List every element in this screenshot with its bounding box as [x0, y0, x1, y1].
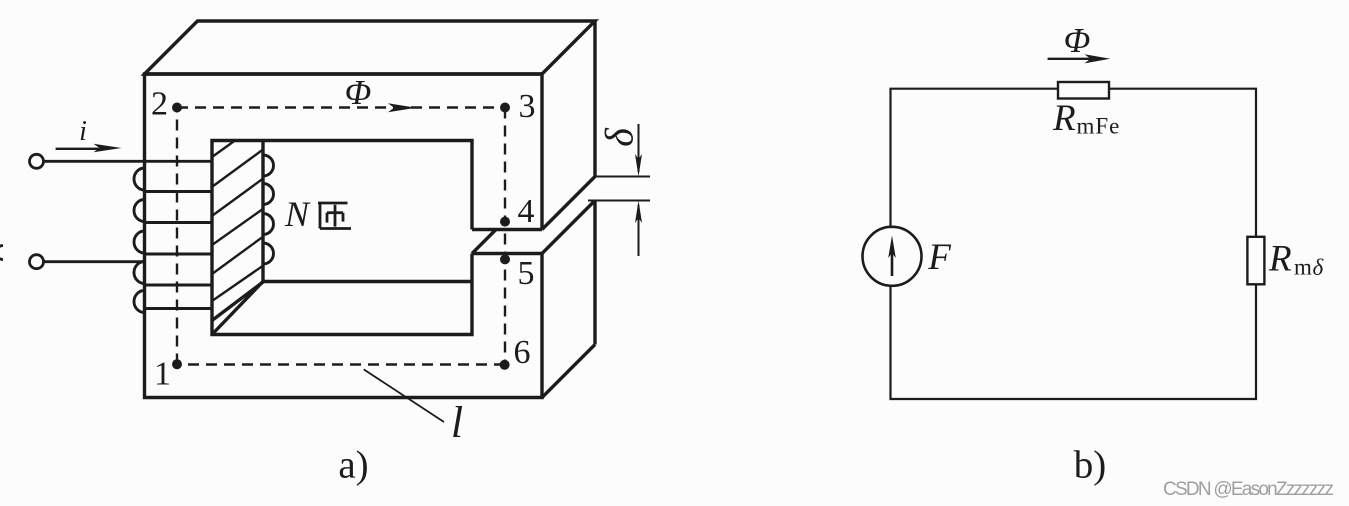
- resistor Rmdelta: [1247, 237, 1264, 284]
- terminal top: [30, 154, 44, 168]
- air-gap front edges: [472, 230, 542, 254]
- svg-text:3: 3: [519, 88, 536, 125]
- wire bottom terminal: [44, 260, 147, 263]
- svg-text:N: N: [284, 194, 311, 234]
- core bottom-right oblique: [542, 345, 595, 398]
- flux arrow b: [1048, 58, 1095, 60]
- node 2 dot: [172, 103, 182, 113]
- mean length leader line: [364, 369, 444, 422]
- core back right edge: [593, 21, 596, 345]
- flux arrowhead top: [388, 103, 416, 112]
- node 4 dot: [500, 217, 510, 227]
- circuit b loop wires: [891, 89, 1257, 399]
- core window opening: [212, 141, 472, 335]
- svg-text:Φ: Φ: [1064, 21, 1091, 60]
- svg-text:mFe: mFe: [1077, 114, 1121, 139]
- svg-text:R: R: [1268, 239, 1292, 280]
- core right face obliques at gap: [542, 177, 595, 254]
- coil front wire turns: [44, 161, 213, 308]
- svg-text:1: 1: [154, 356, 171, 393]
- resistor RmFe: [1058, 82, 1109, 99]
- terminal bottom: [30, 255, 44, 269]
- svg-text:6: 6: [514, 334, 531, 371]
- svg-text:i: i: [79, 116, 87, 147]
- svg-text:δ: δ: [1313, 255, 1324, 280]
- coil right arcs: [263, 155, 274, 264]
- coil hatch lines: [212, 141, 263, 302]
- node 5 dot: [500, 254, 510, 264]
- svg-text:5: 5: [518, 255, 535, 292]
- label Zha (CJK turn) drawn: [318, 203, 351, 229]
- window inner bottom wall: [212, 282, 472, 335]
- current arrowhead: [94, 144, 122, 153]
- core front face outer edges: [145, 74, 543, 398]
- svg-text:R: R: [1052, 98, 1076, 139]
- svg-text:F: F: [927, 237, 951, 278]
- mmf source F circle: [863, 227, 922, 286]
- svg-text:l: l: [451, 398, 463, 447]
- delta dimension leader lines: [588, 124, 650, 256]
- current arrow shaft: [56, 148, 101, 150]
- svg-text:Φ: Φ: [345, 73, 372, 112]
- gap inner oblique: [472, 230, 496, 254]
- coil left arcs: [134, 168, 145, 313]
- svg-text:4: 4: [518, 193, 535, 230]
- node 6 dot: [500, 360, 510, 370]
- node 3 dot: [500, 103, 510, 113]
- mmf source arrow: [891, 250, 894, 276]
- svg-text:2: 2: [151, 86, 168, 123]
- svg-text:δ: δ: [597, 127, 642, 147]
- node 1 dot: [172, 359, 182, 369]
- svg-text:a): a): [338, 444, 368, 487]
- edge artifact half circle: [0, 246, 3, 260]
- flux dashed path: [177, 108, 505, 365]
- delta dim arrowheads: [635, 154, 642, 223]
- svg-text:m: m: [1294, 255, 1312, 280]
- svg-text:CSDN @EasonZzzzzzz: CSDN @EasonZzzzzzz: [1163, 479, 1334, 500]
- coil slab (hatched) outline: [212, 141, 263, 321]
- core top face: [145, 21, 596, 74]
- svg-text:b): b): [1074, 444, 1107, 487]
